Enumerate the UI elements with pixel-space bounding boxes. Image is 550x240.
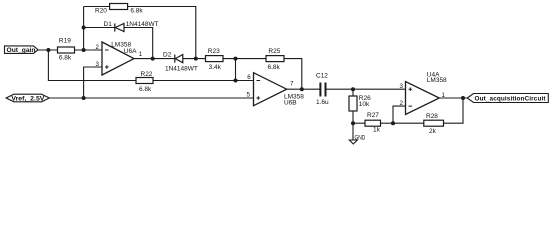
node J10 (R26/R27/GND) — [351, 121, 355, 125]
diode D1 — [114, 23, 116, 31]
svg-text:R28: R28 — [426, 113, 438, 120]
svg-text:U6B: U6B — [284, 100, 297, 107]
resistor R25 — [266, 56, 284, 62]
wire R23 to R25 — [223, 58, 266, 60]
capacitor C12 — [319, 83, 321, 97]
resistor R27 — [365, 120, 381, 126]
resistor R19 — [58, 47, 75, 53]
wire to R27 — [353, 122, 365, 124]
svg-text:1N4148WT: 1N4148WT — [165, 65, 198, 72]
svg-text:R25: R25 — [268, 48, 280, 55]
node J6 (pin6 tap) — [234, 57, 238, 61]
svg-text:5: 5 — [247, 91, 251, 98]
svg-text:6.8k: 6.8k — [268, 64, 281, 71]
wire R27 to J11 — [381, 122, 394, 124]
wire R20 top — [84, 7, 196, 59]
node J5 (R20 right) — [194, 57, 198, 61]
svg-text:1k: 1k — [373, 127, 381, 134]
svg-text:U6A: U6A — [124, 48, 137, 55]
wire C12 to U4A pin3 — [327, 88, 406, 90]
svg-text:10k: 10k — [359, 101, 370, 108]
svg-text:3: 3 — [400, 83, 404, 90]
svg-text:3: 3 — [96, 61, 100, 68]
global label Out_acquisitionCircuit — [467, 94, 548, 103]
wire tap down to pin6 line — [235, 59, 237, 81]
wire R19 to U6A pin2 — [75, 49, 103, 51]
resistor R22 — [136, 78, 153, 84]
op-amp U6A — [102, 42, 134, 75]
op-amp U4A — [406, 82, 440, 115]
wire pin3 U6A — [84, 67, 102, 98]
svg-text:3.4k: 3.4k — [209, 64, 222, 71]
svg-text:R20: R20 — [95, 7, 107, 14]
node J1 (Out_gain / R22 tap) — [46, 48, 50, 52]
node J7 (Vref to pin3) — [82, 96, 86, 100]
wire feedback R28 — [393, 98, 463, 123]
wire feedback left vertical — [83, 7, 85, 51]
op-amp U6B — [254, 73, 287, 106]
global label Out_gain — [5, 46, 39, 54]
node J2 (inverting input U6A) — [82, 48, 86, 52]
wire U6B out to C12 — [287, 88, 320, 90]
wire Vref rail — [49, 97, 253, 99]
ground GND — [352, 123, 354, 140]
svg-text:2: 2 — [96, 44, 100, 51]
node J12 (output node) — [461, 96, 465, 100]
wire R26 top — [352, 89, 354, 96]
node J11 (pin2 node) — [391, 121, 395, 125]
resistor R26 — [349, 96, 357, 111]
svg-text:R19: R19 — [59, 38, 71, 45]
svg-text:D1: D1 — [104, 21, 113, 28]
svg-text:GND: GND — [355, 134, 366, 141]
svg-text:1: 1 — [139, 51, 143, 58]
resistor R20 — [110, 4, 128, 10]
svg-text:1N4148WT: 1N4148WT — [126, 21, 159, 28]
svg-text:1: 1 — [442, 92, 446, 99]
svg-text:2k: 2k — [429, 128, 437, 135]
svg-text:6: 6 — [247, 74, 251, 81]
svg-text:6.8k: 6.8k — [139, 86, 152, 93]
global label Vref,_2.5V — [6, 94, 49, 102]
wire U4A out — [439, 97, 467, 99]
svg-text:LM358: LM358 — [427, 77, 447, 84]
node J9 (R26 tap) — [351, 87, 355, 91]
svg-text:7: 7 — [290, 81, 294, 88]
node J4 (D1 right) — [151, 57, 155, 61]
svg-text:R22: R22 — [141, 71, 153, 78]
node J3 (D1 left) — [82, 26, 86, 30]
wire R25 to U6B out — [284, 59, 302, 90]
svg-text:2: 2 — [400, 100, 404, 107]
wire R22 line — [48, 50, 253, 81]
svg-text:Out_gain: Out_gain — [7, 47, 36, 54]
wire pin2 U4A — [393, 106, 406, 123]
svg-text:1.6u: 1.6u — [316, 99, 329, 106]
svg-text:Out_acquisitionCircuit: Out_acquisitionCircuit — [475, 96, 547, 103]
svg-text:D2: D2 — [163, 51, 172, 58]
svg-text:R27: R27 — [367, 112, 379, 119]
resistor R28 — [424, 120, 444, 126]
svg-text:Vref,_2.5V: Vref,_2.5V — [11, 96, 45, 103]
node J8 (U6B out / R25) — [300, 87, 304, 91]
wire D1 line — [84, 28, 153, 59]
node J6b — [234, 79, 238, 83]
svg-text:6.8k: 6.8k — [130, 7, 143, 14]
wire Out_gain to R19 — [38, 49, 58, 51]
resistor R23 — [206, 56, 224, 62]
wire U6A out — [134, 58, 206, 60]
wire R26 bottom — [352, 111, 354, 123]
svg-text:6.8k: 6.8k — [59, 54, 72, 61]
diode D2 — [174, 55, 176, 63]
svg-text:C12: C12 — [316, 72, 328, 79]
svg-text:R23: R23 — [208, 48, 220, 55]
